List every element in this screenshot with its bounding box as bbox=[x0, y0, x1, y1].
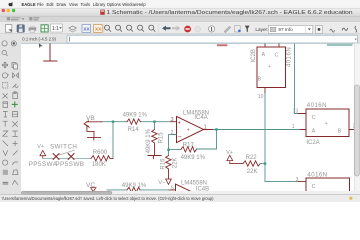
supply V- arrow down bbox=[166, 179, 172, 184]
svg-text:XX: XX bbox=[83, 27, 90, 32]
ground (R15) bbox=[148, 156, 161, 159]
op-amp IC4A bbox=[177, 116, 204, 142]
title icon + text bbox=[100, 10, 104, 15]
wire node to R17 bbox=[169, 149, 182, 151]
svg-text:V+: V+ bbox=[226, 150, 233, 156]
svg-text:5: 5 bbox=[171, 186, 174, 192]
undo / redo bbox=[162, 26, 171, 31]
info circle bbox=[209, 26, 215, 32]
svg-text:VB: VB bbox=[86, 115, 95, 122]
svg-text:IC4A: IC4A bbox=[194, 115, 207, 121]
toolbar icons row bbox=[5, 24, 356, 34]
supply V+ arrow (switch) bbox=[40, 150, 46, 158]
wire output to IC2A bbox=[213, 129, 301, 131]
svg-text:4016N: 4016N bbox=[286, 47, 292, 67]
svg-text:PP5SWA: PP5SWA bbox=[29, 161, 58, 168]
1:1 dropdown bbox=[50, 24, 62, 32]
wire junction to R15 bbox=[154, 122, 156, 130]
svg-text:R16: R16 bbox=[161, 158, 167, 170]
supply VC arrow partial bbox=[91, 188, 96, 192]
resistor R16 bbox=[166, 156, 171, 180]
svg-text:Tools: Tools bbox=[81, 2, 91, 7]
new/open bbox=[5, 25, 11, 33]
svg-text:R600: R600 bbox=[93, 150, 108, 156]
antenna symbol bbox=[44, 44, 57, 61]
svg-text:A: A bbox=[312, 129, 316, 135]
svg-text:V+: V+ bbox=[37, 144, 44, 150]
node junction R14/R15 bbox=[153, 121, 155, 123]
wire R14 row bbox=[113, 121, 171, 123]
svg-text:+: + bbox=[187, 128, 190, 134]
svg-text:Help: Help bbox=[137, 2, 146, 7]
magnifiers x5 bbox=[105, 25, 156, 32]
svg-text:View: View bbox=[69, 2, 78, 7]
svg-text:XX: XX bbox=[95, 27, 102, 32]
svg-text:49K9 1%: 49K9 1% bbox=[122, 183, 147, 189]
svg-text:C: C bbox=[312, 184, 316, 190]
orange icon bbox=[94, 25, 103, 33]
switch S1 contact B bbox=[68, 154, 74, 160]
icon with blue mark bbox=[235, 26, 241, 32]
svg-text:IC2A: IC2A bbox=[306, 140, 319, 146]
node junction VB bbox=[112, 121, 114, 123]
window background bars bbox=[0, 0, 360, 8]
svg-text:Layer:: Layer: bbox=[255, 27, 268, 32]
svg-text:180K: 180K bbox=[92, 162, 106, 168]
resistor R22 bbox=[243, 161, 260, 166]
svg-text:R22: R22 bbox=[246, 155, 258, 161]
svg-text:−: − bbox=[178, 135, 182, 141]
stop sign bbox=[184, 26, 191, 33]
svg-text:1:1: 1:1 bbox=[52, 26, 59, 32]
layers icon bbox=[69, 26, 76, 30]
net IC2B vertical bbox=[265, 93, 299, 182]
wire R22 to net bbox=[260, 163, 265, 165]
svg-text:EAGLE: EAGLE bbox=[22, 2, 36, 7]
small glyph icons right bbox=[330, 29, 335, 32]
resistor R20 bottom bbox=[127, 187, 140, 192]
wire switch segments bbox=[43, 157, 91, 159]
node junction R22 bbox=[264, 162, 266, 164]
save bbox=[17, 25, 24, 32]
wire VB to R600 vertical bbox=[112, 122, 114, 159]
svg-text:File: File bbox=[37, 2, 44, 7]
horizontal scrollbar bbox=[21, 191, 360, 195]
svg-text:B: B bbox=[338, 129, 342, 135]
svg-text:4016N: 4016N bbox=[307, 103, 327, 109]
op-amp IC4B partial bbox=[176, 184, 203, 210]
grid icon bbox=[41, 25, 48, 32]
svg-text:C: C bbox=[275, 53, 279, 59]
svg-text:SWITCH: SWITCH bbox=[50, 144, 77, 151]
svg-text:0.1 inch (-4.5 2.9): 0.1 inch (-4.5 2.9) bbox=[22, 37, 56, 42]
mouse cursor bbox=[39, 43, 43, 48]
svg-text:PP5SWB: PP5SWB bbox=[55, 161, 84, 168]
svg-text:IC2B: IC2B bbox=[251, 49, 257, 62]
svg-text:4016N: 4016N bbox=[307, 172, 327, 178]
svg-text:3: 3 bbox=[296, 177, 299, 183]
svg-text:V−: V− bbox=[158, 180, 165, 186]
status bar bbox=[0, 195, 360, 202]
IC2B box bbox=[257, 47, 286, 88]
svg-text:49K9 1%: 49K9 1% bbox=[181, 155, 206, 161]
node junction feedback bbox=[167, 149, 169, 151]
node junction output bbox=[215, 128, 217, 130]
svg-text:+: + bbox=[178, 120, 181, 126]
command row bbox=[22, 35, 357, 43]
switch lever bbox=[59, 150, 74, 155]
svg-text:10: 10 bbox=[258, 94, 264, 100]
IC2B pins top bbox=[265, 44, 279, 93]
svg-text:49K9 1%: 49K9 1% bbox=[123, 113, 148, 119]
tab bar mini widgets bbox=[7, 17, 40, 20]
tiny red text marker top bbox=[217, 44, 227, 46]
blue icon bbox=[82, 25, 91, 33]
svg-text:Options: Options bbox=[107, 2, 121, 7]
IC2A pin B out bbox=[349, 129, 357, 131]
layer-settings button bbox=[316, 25, 323, 33]
resistor R16 top wire bbox=[168, 150, 170, 156]
svg-text:2: 2 bbox=[171, 130, 174, 136]
net to IC2A pin13 bbox=[295, 44, 299, 114]
svg-text:1: 1 bbox=[292, 124, 295, 130]
wire V+ to R22 bbox=[230, 163, 243, 165]
svg-text:22K: 22K bbox=[172, 158, 178, 169]
menu bar bbox=[8, 2, 146, 7]
svg-text:B: B bbox=[258, 77, 262, 83]
svg-text:1: 1 bbox=[204, 124, 207, 130]
funnel bbox=[245, 26, 250, 33]
resistor R600 bbox=[91, 156, 113, 161]
jack J1 VB bbox=[84, 121, 102, 140]
svg-text:49K9 1%: 49K9 1% bbox=[146, 128, 152, 153]
resistor R14 bbox=[127, 119, 141, 124]
print bbox=[29, 27, 37, 31]
svg-text:97 Info: 97 Info bbox=[278, 27, 293, 32]
IC2A pin1 bbox=[301, 129, 307, 131]
IC2A box bbox=[306, 109, 349, 137]
pin 1 output wire bbox=[204, 129, 213, 131]
resistor R17 bbox=[181, 147, 197, 152]
svg-text:A: A bbox=[262, 52, 266, 58]
wire VB horizontal bbox=[101, 121, 113, 123]
IC2C pin wire bbox=[299, 181, 307, 183]
switch S1 contact A bbox=[53, 154, 59, 160]
vertical scrollbar bbox=[354, 43, 360, 191]
net pin2 to feedback node bbox=[169, 135, 177, 150]
schematic canvas content bbox=[29, 43, 357, 210]
svg-text:C: C bbox=[312, 115, 316, 121]
svg-text:R17: R17 bbox=[183, 142, 195, 148]
left tool palette bbox=[2, 41, 18, 185]
title bar traffic lights bbox=[2, 9, 5, 12]
svg-text:R15: R15 bbox=[158, 132, 164, 144]
svg-text:+: + bbox=[325, 121, 328, 127]
svg-text:Library: Library bbox=[93, 2, 106, 7]
svg-text:3: 3 bbox=[171, 117, 174, 123]
wire bottom row bbox=[107, 189, 169, 191]
feedback wire to output bbox=[197, 130, 217, 150]
svg-text:Draw: Draw bbox=[57, 2, 67, 7]
pencil-ish icon bbox=[224, 26, 231, 33]
IC2C box bottom right bbox=[306, 178, 350, 200]
pin 2 wire bbox=[172, 134, 177, 136]
pin 5 wire IC4B bbox=[169, 189, 176, 191]
svg-text:22K: 22K bbox=[247, 169, 258, 175]
supply V+ arrow (R22) bbox=[227, 155, 233, 163]
svg-text:13: 13 bbox=[293, 109, 299, 115]
IC2A pin13 bbox=[299, 113, 307, 115]
svg-text:+: + bbox=[268, 64, 271, 70]
svg-text:'/Users/lanterma/Documents/eag: '/Users/lanterma/Documents/eagle/lk267.s… bbox=[2, 196, 214, 201]
svg-text:Edit: Edit bbox=[47, 2, 55, 7]
svg-text:1 Schematic - /Users/lanterma/: 1 Schematic - /Users/lanterma/Documents/… bbox=[107, 10, 353, 16]
pin 3 wire into op-amp bbox=[171, 121, 177, 123]
svg-text:R14: R14 bbox=[128, 127, 140, 133]
resistor R15 bbox=[152, 130, 157, 156]
tiny teal net label top right bbox=[327, 44, 353, 46]
svg-text:Window: Window bbox=[122, 2, 137, 7]
faded circle bbox=[195, 26, 201, 32]
